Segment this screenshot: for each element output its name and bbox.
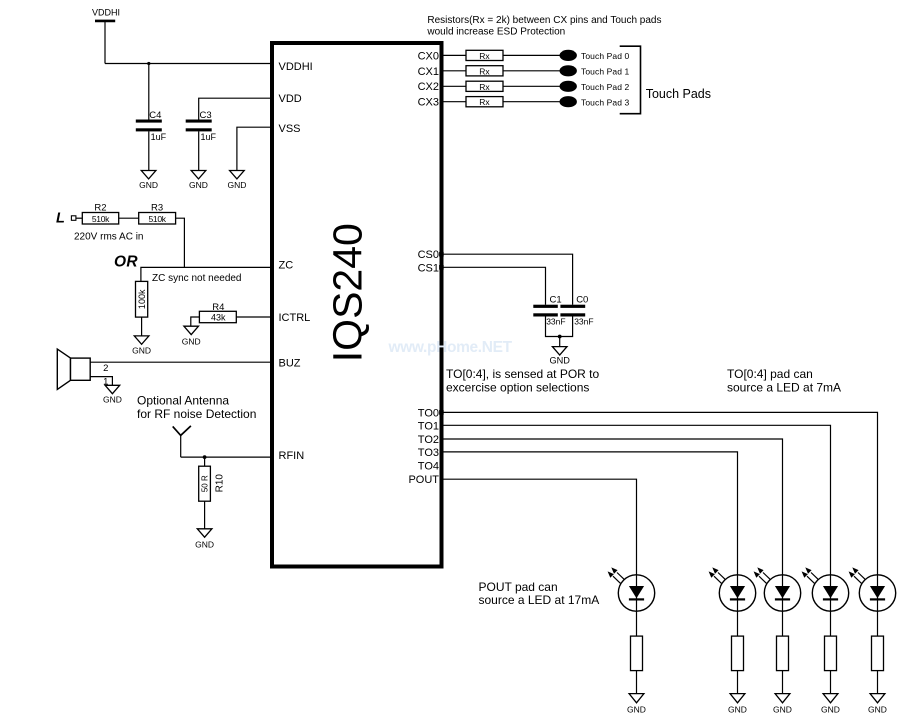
node junction on VDDHI rail [147, 62, 150, 65]
svg-text:ICTRL: ICTRL [279, 312, 311, 324]
wire 100k to ground [141, 317, 143, 336]
svg-text:GND: GND [773, 704, 792, 714]
touch pad 2 [560, 81, 577, 92]
ground under D5 [627, 694, 646, 714]
svg-text:POUT: POUT [408, 474, 439, 486]
node junction caps ground [558, 335, 562, 339]
svg-text:Touch Pad 0: Touch Pad 0 [581, 51, 630, 61]
svg-text:ZC: ZC [279, 260, 294, 272]
svg-text:TO0: TO0 [418, 407, 439, 419]
ground under D1 [868, 694, 887, 714]
svg-text:BUZ: BUZ [279, 358, 301, 370]
speaker LS1 [57, 349, 90, 389]
svg-text:GND: GND [868, 704, 887, 714]
svg-text:510k: 510k [148, 214, 166, 224]
LED D5 (POUT) [608, 567, 655, 611]
svg-text:C3: C3 [200, 110, 212, 121]
svg-text:www.pHome.NET: www.pHome.NET [388, 339, 513, 356]
wire R3 to ZC node [176, 218, 185, 267]
resistor R10 [199, 466, 226, 501]
wire C4 to ground [148, 131, 150, 170]
svg-text:ZC sync not needed: ZC sync not needed [152, 273, 242, 284]
svg-text:VDDHI: VDDHI [92, 8, 120, 18]
wire ICTRL [236, 316, 272, 318]
svg-text:IQS240: IQS240 [324, 223, 370, 362]
text TO sensed at POR [446, 367, 600, 394]
svg-text:CS1: CS1 [418, 262, 439, 274]
svg-text:C1: C1 [550, 295, 562, 306]
LED D2 (TO1) [802, 567, 849, 611]
wire TO2 to LED [442, 439, 783, 636]
touch pad 0 [560, 50, 577, 61]
wire CS1 to C1 [442, 267, 546, 304]
svg-text:GND: GND [132, 346, 151, 356]
resistor R2 [82, 203, 118, 224]
text POUT pad can source LED [479, 580, 600, 607]
svg-text:220V rms AC in: 220V rms AC in [74, 232, 143, 243]
ground at speaker [103, 385, 122, 404]
IC U1 IQS240 body [272, 43, 442, 567]
wire BUZ (speaker pin 2) [90, 361, 272, 363]
wire VSS to ground [237, 127, 272, 170]
svg-text:GND: GND [821, 704, 840, 714]
svg-text:CS0: CS0 [418, 249, 439, 261]
wire to ground D1 [877, 671, 879, 694]
wire C3 to ground [198, 131, 200, 170]
svg-text:would increase ESD Protection: would increase ESD Protection [426, 27, 565, 38]
wire to ground D4 [737, 671, 739, 694]
svg-text:RFIN: RFIN [279, 450, 305, 462]
svg-text:OR: OR [114, 253, 138, 270]
LED D3 (TO2) [754, 567, 801, 611]
svg-text:510k: 510k [92, 214, 110, 224]
resistor Rx (CX2) [466, 81, 503, 92]
wire TO1 to LED [442, 425, 831, 636]
svg-text:Rx: Rx [479, 82, 490, 92]
wire to ground D2 [830, 671, 832, 694]
ground under R10 [195, 529, 214, 550]
touch pad 1 [560, 65, 577, 76]
wire C4 branch [148, 64, 150, 120]
svg-text:Touch Pads: Touch Pads [646, 87, 711, 101]
bracket touch pads [620, 46, 641, 114]
svg-text:50 R: 50 R [201, 475, 210, 492]
svg-text:VDDHI: VDDHI [279, 61, 313, 73]
svg-text:GND: GND [549, 356, 570, 366]
svg-text:L: L [56, 211, 65, 227]
wire CX3 to Rx [442, 101, 467, 103]
svg-text:Rx: Rx [479, 51, 490, 61]
svg-text:TO2: TO2 [418, 434, 439, 446]
svg-text:2: 2 [103, 363, 108, 374]
resistor R3 [139, 203, 176, 224]
svg-text:100k: 100k [137, 289, 147, 309]
note text ESD protection [426, 15, 661, 37]
svg-text:CX2: CX2 [418, 81, 439, 93]
ground under C1 C0 [549, 347, 570, 366]
svg-text:1uF: 1uF [201, 132, 217, 142]
svg-text:R10: R10 [215, 474, 226, 493]
svg-text:GND: GND [189, 180, 208, 190]
wire CX2 to Rx [442, 85, 467, 87]
pin dot TO0 [439, 410, 444, 415]
svg-text:1uF: 1uF [151, 132, 167, 142]
resistor for LED D4 [732, 636, 744, 671]
wire R10 to ground [204, 501, 206, 529]
capacitor C4 [136, 110, 167, 142]
svg-text:Resistors(Rx = 2k) between CX: Resistors(Rx = 2k) between CX pins and T… [427, 15, 661, 26]
ground under D2 [821, 694, 840, 714]
wire Rx to Touch Pad 2 [503, 85, 560, 87]
svg-text:TO[0:4] pad can: TO[0:4] pad can [727, 367, 813, 381]
node junction RFIN [203, 455, 207, 459]
wire speaker pin 1 to ground [90, 377, 112, 386]
ground under VSS [227, 171, 246, 191]
ground under D3 [773, 694, 792, 714]
svg-text:33nF: 33nF [546, 317, 565, 327]
resistor for LED D5 [631, 636, 643, 671]
ground at R4 [182, 326, 201, 346]
capacitor C1 [533, 295, 565, 327]
svg-text:Optional Antenna: Optional Antenna [137, 393, 229, 407]
svg-text:Touch Pad 1: Touch Pad 1 [581, 66, 630, 76]
wire antenna stem [180, 435, 182, 457]
wire Rx to Touch Pad 3 [503, 101, 560, 103]
svg-text:Rx: Rx [479, 97, 490, 107]
resistor Rx (CX1) [466, 66, 503, 77]
svg-text:POUT pad can: POUT pad can [479, 580, 558, 594]
ground under C3 [189, 171, 208, 191]
svg-text:source a LED at 7mA: source a LED at 7mA [727, 381, 841, 395]
svg-text:TO4: TO4 [418, 461, 439, 473]
wire VDD to C3 [199, 98, 272, 119]
svg-text:GND: GND [627, 704, 646, 714]
svg-text:C0: C0 [576, 295, 588, 306]
wire CX1 to Rx [442, 70, 467, 72]
svg-text:VSS: VSS [279, 123, 301, 135]
svg-text:for RF noise Detection: for RF noise Detection [137, 407, 256, 421]
resistor Rx (CX0) [466, 50, 503, 61]
resistor Rx (CX3) [466, 97, 503, 108]
svg-text:CX0: CX0 [418, 50, 439, 62]
svg-text:GND: GND [103, 394, 122, 404]
wire Rx to Touch Pad 0 [503, 54, 560, 56]
svg-text:GND: GND [182, 337, 201, 347]
antenna [173, 426, 191, 436]
svg-text:CX1: CX1 [418, 66, 439, 78]
wire to R10 [204, 457, 206, 466]
resistor R4 [199, 302, 236, 323]
wire CX0 to Rx [442, 54, 467, 56]
wire TO0 to LED [442, 412, 878, 636]
pin dot CS0 [439, 252, 444, 257]
wire L to R2 [76, 217, 82, 219]
wire VDDHI rail to IC pin [105, 63, 272, 65]
svg-text:C4: C4 [149, 110, 161, 121]
svg-text:source a LED at 17mA: source a LED at 17mA [479, 593, 600, 607]
wire to ground D3 [782, 671, 784, 694]
svg-text:GND: GND [195, 539, 214, 549]
ground under 100k [132, 336, 151, 356]
svg-text:TO[0:4], is sensed at POR to: TO[0:4], is sensed at POR to [446, 367, 600, 381]
svg-text:CX3: CX3 [418, 97, 439, 109]
svg-text:33nF: 33nF [574, 317, 593, 327]
wire to ground D5 [636, 671, 638, 694]
svg-text:VDD: VDD [279, 93, 302, 105]
LED D1 (TO0) [849, 567, 896, 611]
ground under C4 [139, 171, 158, 191]
pin dot CS1 [439, 265, 444, 270]
resistor 100k [136, 281, 148, 317]
capacitor C3 [186, 110, 217, 142]
wire ZC [141, 267, 272, 281]
wire C1 C0 to common ground [546, 317, 573, 337]
svg-text:TO3: TO3 [418, 447, 439, 459]
terminal L [56, 211, 76, 227]
wire to ground stem [559, 337, 561, 347]
text Optional Antenna for RF noise Detection [137, 393, 256, 421]
svg-text:GND: GND [139, 180, 158, 190]
wire RFIN [181, 456, 272, 458]
capacitor C0 [560, 295, 593, 327]
wire TO3 to LED [442, 452, 738, 636]
ground under D4 [728, 694, 747, 714]
wire R4 left to ground [191, 317, 200, 326]
wire POUT to LED [442, 479, 637, 636]
svg-text:GND: GND [728, 704, 747, 714]
wire Rx to Touch Pad 1 [503, 70, 560, 72]
svg-text:TO1: TO1 [418, 420, 439, 432]
svg-text:43k: 43k [211, 313, 226, 323]
svg-text:Touch Pad 3: Touch Pad 3 [581, 97, 630, 107]
touch pad 3 [560, 96, 577, 107]
svg-text:Touch Pad 2: Touch Pad 2 [581, 82, 630, 92]
svg-text:Rx: Rx [479, 66, 490, 76]
svg-text:excercise option selections: excercise option selections [446, 381, 589, 395]
LED D4 (TO3) [709, 567, 756, 611]
svg-text:GND: GND [227, 180, 246, 190]
wire R2 to R3 [119, 217, 139, 219]
text TO pad can source LED [727, 367, 841, 394]
resistor for LED D3 [777, 636, 789, 671]
resistor for LED D1 [872, 636, 884, 671]
wire CS0 to C0 [442, 254, 573, 305]
resistor for LED D2 [825, 636, 837, 671]
power symbol VDDHI [92, 8, 120, 64]
